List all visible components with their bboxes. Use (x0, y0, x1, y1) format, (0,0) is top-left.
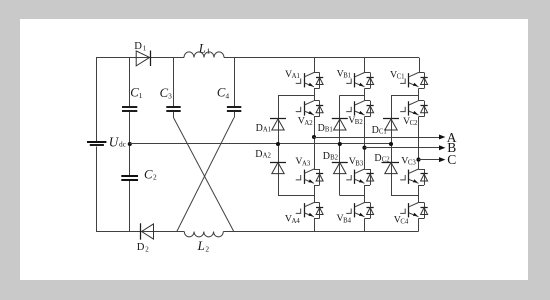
wire clamp branch A lower horizontal (278, 195, 314, 197)
wire top rail right (L1 to leg C top) (224, 57, 419, 59)
transistor V_A4 (296, 203, 324, 219)
wire leg A VA2 emitter to VA3 collector (314, 117, 316, 169)
svg-text:D: D (318, 123, 325, 134)
svg-text:B1: B1 (325, 127, 333, 134)
capacitor C1 plates (122, 107, 137, 111)
transistor V_A3 (296, 169, 324, 186)
wire leg B junction VB3-VB4 (364, 185, 366, 203)
diode D1 triangle (136, 51, 149, 66)
transistor V_A1 (296, 73, 324, 89)
svg-text:B2: B2 (330, 155, 339, 162)
wire clamp branch C lower horizontal (391, 195, 419, 197)
label D2 (137, 242, 149, 254)
wire leg C VC2 emitter to VC3 collector (418, 117, 420, 169)
label V_B1 (337, 68, 352, 79)
label D_C1 (372, 125, 387, 136)
diode D2 triangle (142, 224, 154, 239)
diode D2 cathode bar (140, 223, 142, 239)
label D_B2 (323, 151, 339, 162)
battery U_dc long plate (87, 141, 106, 143)
label D_C2 (374, 153, 390, 164)
arrow phase B (439, 145, 445, 150)
label V_B2 (348, 115, 363, 126)
node U_dc junction dot (128, 142, 132, 146)
label C4 (217, 86, 230, 101)
label V_A2 (298, 116, 314, 127)
svg-text:B1: B1 (343, 72, 351, 79)
label L2 (197, 239, 210, 254)
wire C1-C2 middle segment (129, 112, 131, 176)
node clamp B neutral junction dot (338, 142, 342, 146)
transistor V_B3 (346, 169, 374, 186)
label V_B3 (349, 156, 364, 167)
wire left branch lower (battery to bottom rail) (96, 147, 98, 232)
svg-text:D: D (255, 149, 262, 160)
wire C3 stub below plates (173, 112, 175, 118)
wire phase A output line (314, 137, 439, 139)
wire C4 diagonal to L2 left (177, 118, 234, 232)
wire clamp branch B lower horizontal (340, 195, 365, 197)
svg-text:A3: A3 (302, 160, 311, 167)
svg-text:2: 2 (145, 245, 149, 253)
transistor V_B4 (346, 203, 374, 219)
svg-text:C2: C2 (410, 120, 419, 127)
svg-text:D: D (374, 153, 381, 164)
svg-text:D: D (372, 125, 379, 136)
svg-text:C: C (447, 152, 456, 167)
svg-text:A4: A4 (292, 218, 301, 225)
capacitor C2 plates (121, 176, 138, 180)
node phase C output junction dot (416, 158, 420, 162)
label V_A1 (285, 69, 300, 80)
label D1 (134, 41, 146, 53)
wire top rail left (battery+ to L1) (96, 57, 184, 59)
transistor V_B2 (346, 101, 374, 117)
wire clamp branch B upper horizontal (340, 95, 365, 97)
transistor V_B1 (346, 73, 374, 89)
capacitor C4 plates (227, 107, 241, 111)
svg-text:1: 1 (143, 45, 147, 53)
transistor V_A2 (296, 101, 324, 117)
diode D_B2 (332, 163, 348, 174)
wire clamp branch A upper horizontal (278, 95, 314, 97)
svg-text:3: 3 (168, 92, 172, 101)
svg-text:D: D (134, 41, 142, 52)
wire phase B output line (365, 147, 440, 149)
svg-text:D: D (256, 123, 263, 134)
wire leg C emitter to bottom rail (418, 219, 420, 232)
arrow phase A (439, 135, 445, 140)
wire leg A junction VA3-VA4 (314, 185, 316, 203)
inductor L2 (184, 232, 223, 237)
label V_A4 (285, 214, 301, 225)
wire C4 branch top (234, 58, 236, 107)
label D_A2 (255, 149, 271, 160)
wire clamp branch B vertical (339, 95, 341, 195)
wire clamp branch C vertical (391, 95, 393, 195)
wire C4 stub below plates (234, 112, 236, 118)
label output B (447, 140, 456, 155)
svg-text:dc: dc (119, 140, 127, 149)
diode D_A2 (270, 163, 286, 174)
label output C (447, 152, 456, 167)
transistor V_C2 (400, 101, 428, 117)
node phase B output junction dot (362, 146, 366, 150)
wire leg B junction VB1-VB2 (364, 89, 366, 101)
wire leg A collector from top rail (314, 58, 316, 73)
diode D_C2 (382, 163, 400, 174)
transistor V_C4 (400, 203, 428, 219)
svg-text:D: D (323, 151, 330, 162)
svg-text:L: L (198, 41, 206, 55)
svg-text:B4: B4 (343, 217, 352, 224)
svg-text:B3: B3 (355, 160, 364, 167)
label U_dc (109, 134, 127, 149)
label V_C1 (390, 70, 405, 81)
wire clamp branch A vertical (278, 95, 280, 195)
wire clamp branch C upper horizontal (391, 95, 419, 97)
transistor V_C3 (400, 169, 428, 186)
label D_A1 (256, 123, 272, 134)
wire leg C junction VC3-VC4 (418, 185, 420, 203)
wire bottom rail D2-to-L2 segment (140, 231, 184, 233)
svg-text:D: D (137, 242, 145, 253)
svg-text:A1: A1 (292, 73, 300, 80)
inductor L1 (184, 52, 224, 58)
wire neutral rail (U_dc node to D_C branch) (130, 143, 391, 145)
wire leg A emitter to bottom rail (314, 219, 316, 232)
wire bottom rail left (battery- to D2) (96, 231, 140, 233)
label V_C4 (394, 214, 409, 225)
diode D_A1 (270, 119, 286, 131)
label V_C3 (401, 155, 416, 166)
label V_A3 (295, 156, 311, 167)
svg-text:C2: C2 (382, 156, 391, 163)
svg-text:A2: A2 (304, 120, 313, 127)
wire phase C output line (419, 159, 440, 161)
wire leg C collector from top rail (419, 58, 421, 73)
wire C3 diagonal to L2 right (174, 118, 234, 232)
diode D_C1 (383, 119, 399, 131)
svg-text:A1: A1 (263, 126, 271, 133)
node clamp C neutral junction dot (389, 142, 393, 146)
svg-text:B2: B2 (355, 119, 364, 126)
label D_B1 (318, 123, 333, 134)
svg-text:C: C (144, 167, 153, 181)
wire C2 bottom segment (129, 181, 131, 232)
label V_B4 (337, 213, 352, 224)
diode D_B1 (332, 119, 348, 131)
svg-text:C1: C1 (379, 129, 387, 136)
wire leg B collector from top rail (364, 58, 366, 73)
svg-text:C3: C3 (408, 160, 417, 167)
label C3 (160, 86, 173, 101)
label C2 (144, 167, 157, 181)
node phase A output junction dot (312, 135, 316, 139)
svg-text:2: 2 (153, 173, 157, 182)
label L1 (198, 41, 211, 55)
svg-text:A2: A2 (263, 152, 272, 159)
svg-text:1: 1 (207, 47, 211, 56)
svg-text:C4: C4 (400, 218, 409, 225)
label V_C2 (403, 116, 418, 127)
battery U_dc short plate (90, 144, 104, 146)
label output A (447, 130, 457, 145)
wire leg C junction VC1-VC2 (418, 89, 420, 101)
svg-text:4: 4 (225, 91, 229, 100)
wire leg B emitter to bottom rail (364, 219, 366, 232)
transistor V_C1 (400, 73, 428, 89)
arrow phase C (439, 157, 445, 162)
wire C3 branch top (173, 58, 175, 107)
wire leg B VB2 emitter to VB3 collector (364, 117, 366, 169)
diode D1 cathode bar (150, 51, 152, 67)
wire C1 branch top (129, 58, 131, 107)
wire leg A junction VA1-VA2 (314, 89, 316, 101)
svg-text:L: L (197, 239, 205, 253)
node clamp A neutral junction dot (276, 142, 280, 146)
label C1 (130, 85, 143, 100)
svg-text:1: 1 (139, 91, 143, 100)
svg-text:2: 2 (205, 244, 209, 253)
wire bottom rail right (L2 to leg C bottom) (223, 231, 418, 233)
svg-text:C1: C1 (397, 74, 405, 81)
capacitor C3 plates (166, 107, 180, 111)
wire left branch upper (battery to top rail) (96, 58, 98, 142)
